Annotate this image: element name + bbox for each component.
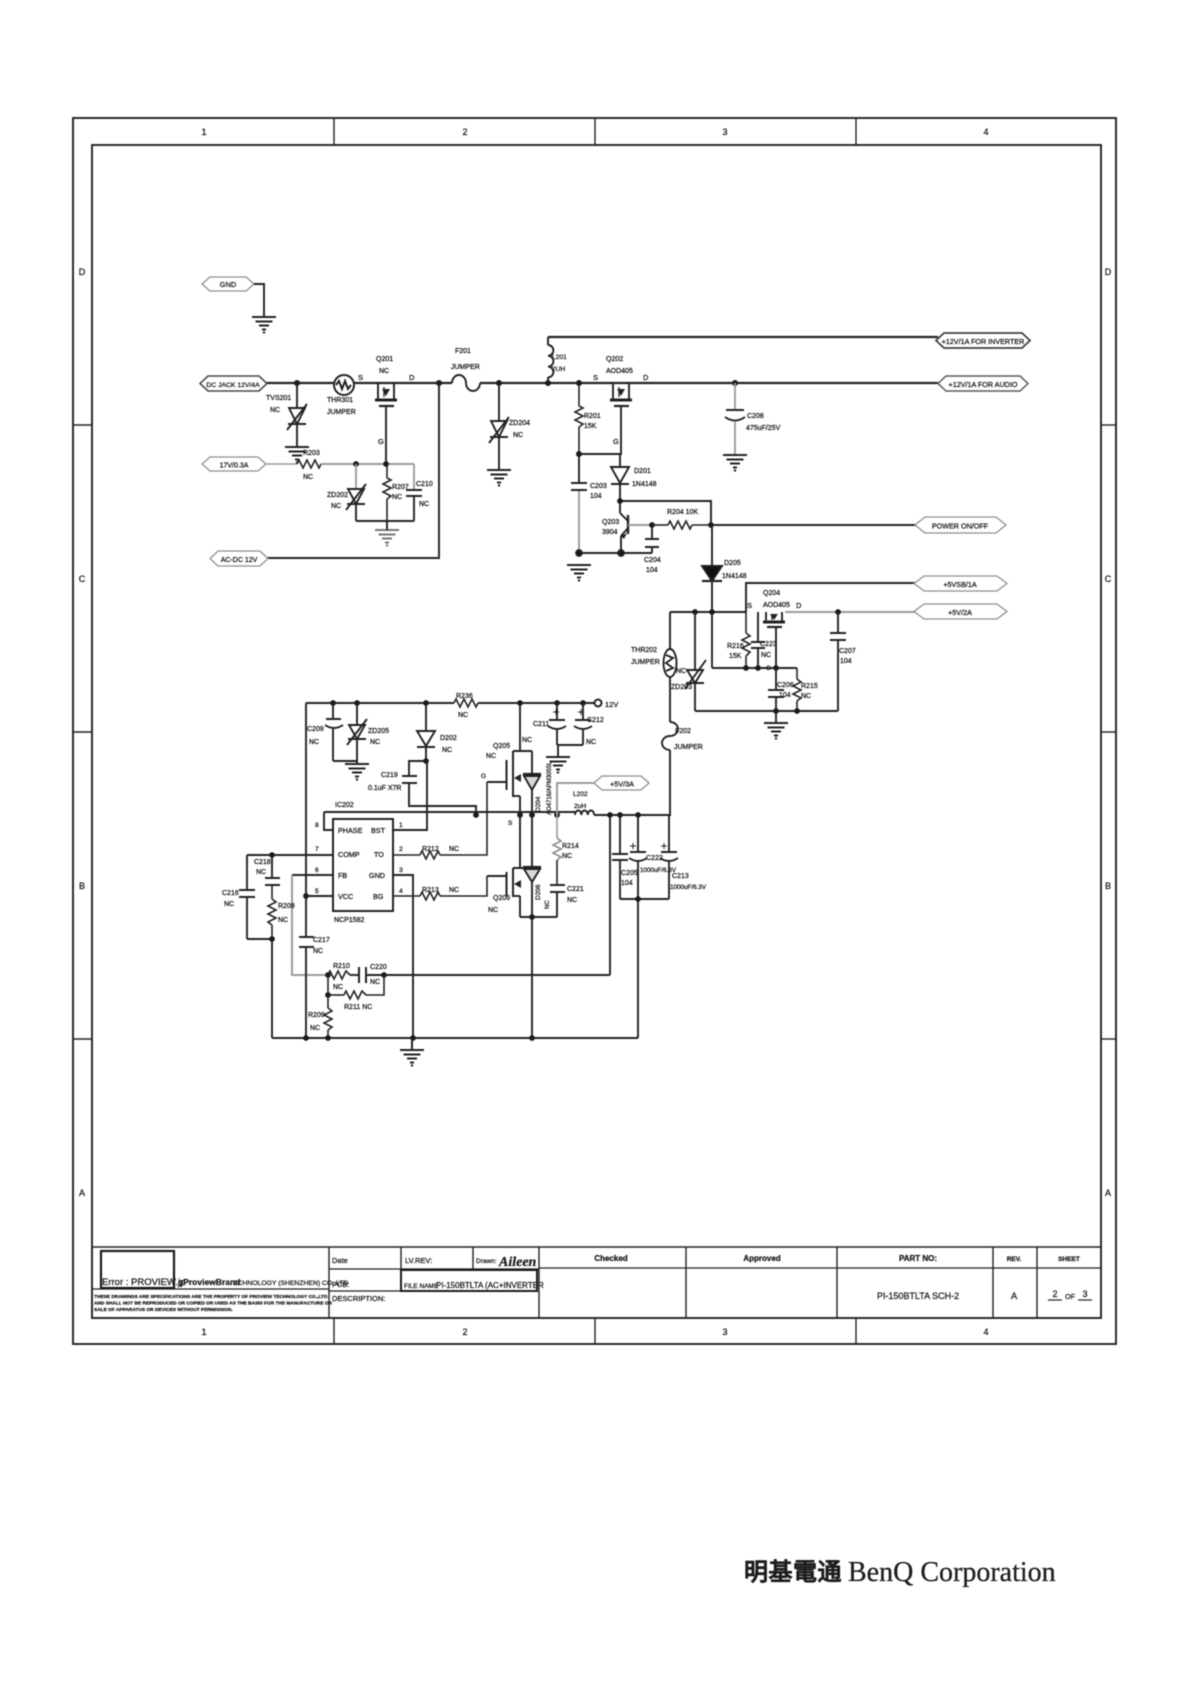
svg-text:3: 3 bbox=[1082, 1289, 1087, 1299]
svg-text:NC: NC bbox=[562, 853, 572, 860]
node GND flag bbox=[202, 277, 254, 291]
svg-text:2: 2 bbox=[1052, 1289, 1057, 1299]
svg-text:PCB:: PCB: bbox=[332, 1280, 350, 1289]
resistor R211 bbox=[325, 975, 384, 1011]
capacitor C216 bbox=[222, 855, 255, 939]
svg-text:R212: R212 bbox=[422, 846, 439, 853]
sheet numbers bbox=[1048, 1289, 1092, 1301]
wire FB pin6 bbox=[292, 874, 333, 876]
svg-text:C219: C219 bbox=[381, 772, 398, 779]
svg-text:475uF/25V: 475uF/25V bbox=[746, 425, 781, 432]
svg-text:C207: C207 bbox=[839, 648, 856, 655]
svg-text:C209: C209 bbox=[307, 726, 324, 733]
svg-text:TO: TO bbox=[374, 850, 384, 859]
ground (C208) bbox=[723, 455, 747, 472]
svg-text:C: C bbox=[1105, 574, 1112, 584]
svg-text:NC: NC bbox=[303, 474, 313, 481]
svg-text:ZD202: ZD202 bbox=[327, 492, 348, 499]
svg-text:Error : PROVIEW.jp: Error : PROVIEW.jp bbox=[102, 1277, 185, 1288]
svg-text:Drawn:: Drawn: bbox=[476, 1258, 497, 1265]
svg-text:BG: BG bbox=[373, 892, 384, 901]
svg-text:C204: C204 bbox=[644, 557, 661, 564]
thermistor THR202 JUMPER bbox=[631, 612, 677, 722]
resistor R204 10K bbox=[652, 509, 714, 529]
svg-text:+12V/1A FOR AUDIO: +12V/1A FOR AUDIO bbox=[949, 380, 1018, 389]
svg-text:Q205: Q205 bbox=[493, 743, 510, 750]
svg-text:2UH: 2UH bbox=[552, 366, 565, 373]
svg-text:2uH: 2uH bbox=[574, 803, 586, 810]
svg-text:5: 5 bbox=[315, 888, 319, 895]
svg-text:PHASE: PHASE bbox=[338, 826, 363, 835]
svg-text:NC: NC bbox=[449, 846, 459, 853]
ground (TVS201) bbox=[285, 447, 309, 464]
svg-text:3: 3 bbox=[399, 867, 403, 874]
svg-text:PI-150BTLTA SCH-2: PI-150BTLTA SCH-2 bbox=[877, 1291, 959, 1301]
rev letter bbox=[1011, 1291, 1018, 1302]
column numbers top bbox=[201, 127, 988, 137]
svg-text:+5VSB/1A: +5VSB/1A bbox=[943, 580, 977, 589]
column numbers bottom bbox=[201, 1327, 988, 1337]
svg-text:SALE OF APPARATUS OR DEVICES W: SALE OF APPARATUS OR DEVICES WITHOUT PER… bbox=[94, 1307, 233, 1313]
svg-text:C223: C223 bbox=[760, 641, 777, 648]
tvs TVS201 bbox=[266, 383, 307, 447]
svg-text:104: 104 bbox=[646, 567, 658, 574]
svg-text:Q204: Q204 bbox=[763, 590, 780, 597]
svg-text:VCC: VCC bbox=[338, 892, 353, 901]
zener ZD205 bbox=[347, 703, 389, 764]
svg-text:NC: NC bbox=[586, 739, 596, 746]
resistor R201 15K bbox=[575, 383, 601, 454]
svg-text:1: 1 bbox=[201, 127, 206, 137]
junction rail dots bbox=[294, 380, 738, 386]
svg-text:Q206: Q206 bbox=[493, 895, 510, 902]
row letters left bbox=[79, 267, 86, 1198]
svg-text:D: D bbox=[1105, 267, 1112, 277]
svg-text:NC: NC bbox=[522, 737, 532, 744]
node +12V/1A FOR AUDIO flag bbox=[938, 376, 1028, 391]
transistor Q206 bbox=[487, 815, 532, 917]
wire +5V/2A bbox=[785, 609, 915, 615]
svg-text:0.1uF X7R: 0.1uF X7R bbox=[368, 785, 401, 792]
svg-text:2: 2 bbox=[462, 1327, 467, 1337]
svg-text:NC: NC bbox=[442, 747, 452, 754]
diode D206 body bbox=[523, 815, 551, 917]
logo box bbox=[101, 1251, 174, 1288]
fuse F201 JUMPER bbox=[451, 348, 480, 391]
svg-text:Date: Date bbox=[332, 1256, 348, 1265]
svg-text:NC: NC bbox=[801, 693, 811, 700]
svg-text:17V/0.3A: 17V/0.3A bbox=[220, 463, 249, 470]
svg-text:C206: C206 bbox=[777, 682, 794, 689]
svg-text:D: D bbox=[409, 373, 415, 382]
row ticks left bbox=[73, 425, 92, 1039]
node +12V/1A FOR INVERTER flag bbox=[936, 333, 1030, 348]
svg-text:NC: NC bbox=[333, 984, 343, 991]
wire +12V inverter rail bbox=[548, 336, 938, 338]
row letters right bbox=[1105, 267, 1112, 1198]
capacitor C211 bbox=[533, 703, 566, 745]
wire output caps bottom rail bbox=[620, 896, 669, 1038]
wire GND pin3 bbox=[393, 875, 413, 1038]
svg-text:C: C bbox=[79, 574, 86, 584]
svg-text:3: 3 bbox=[722, 127, 727, 137]
wire +5V/3A tap bbox=[557, 783, 594, 815]
svg-text:NC: NC bbox=[224, 901, 234, 908]
svg-text:15K: 15K bbox=[584, 423, 597, 430]
wire 5VSB bottom rail bbox=[695, 708, 838, 723]
svg-text:8: 8 bbox=[315, 822, 319, 829]
svg-text:C217: C217 bbox=[313, 937, 330, 944]
svg-text:R209: R209 bbox=[308, 1012, 325, 1019]
svg-text:NC: NC bbox=[309, 739, 319, 746]
resistor R215 bbox=[793, 668, 818, 711]
transistor Q204 AOD405 bbox=[747, 590, 802, 627]
capacitor C218 bbox=[254, 855, 280, 885]
svg-text:S: S bbox=[747, 601, 752, 610]
svg-text:R204 10K: R204 10K bbox=[667, 509, 698, 516]
wire Q203 emitter rail bbox=[576, 550, 652, 556]
file name text bbox=[436, 1281, 544, 1290]
svg-text:DESCRIPTION:: DESCRIPTION: bbox=[332, 1294, 385, 1303]
title block horizontal dividers bbox=[92, 1268, 1101, 1291]
svg-text:4: 4 bbox=[399, 888, 403, 895]
svg-text:G: G bbox=[613, 437, 619, 446]
capacitor C207 104 bbox=[830, 612, 856, 711]
resistor R203 bbox=[266, 450, 321, 481]
ground (C211 C212) bbox=[546, 757, 570, 774]
svg-text:3: 3 bbox=[722, 1327, 727, 1337]
capacitor C221 bbox=[550, 885, 584, 917]
node 12V terminal bbox=[595, 700, 619, 710]
capacitor C222 1000uF/6.3V bbox=[629, 815, 677, 899]
svg-text:GND: GND bbox=[220, 280, 237, 289]
svg-text:NC: NC bbox=[567, 897, 577, 904]
wire AC-DC 12V riser bbox=[267, 383, 439, 558]
ic IC202 NCP1582 bbox=[333, 802, 393, 924]
svg-text:NC: NC bbox=[419, 501, 429, 508]
svg-text:104: 104 bbox=[840, 658, 852, 665]
svg-text:ZD205: ZD205 bbox=[368, 728, 389, 735]
svg-text:C208: C208 bbox=[747, 413, 764, 420]
capacitor C208 475uF/25V bbox=[725, 383, 781, 455]
node +5VSB/1A flag bbox=[914, 576, 1007, 591]
svg-text:C212: C212 bbox=[587, 717, 604, 724]
wire Q201 gate down bbox=[378, 406, 386, 464]
svg-text:AOD405: AOD405 bbox=[606, 368, 633, 375]
ground (GND flag) bbox=[252, 317, 276, 334]
svg-text:NC: NC bbox=[545, 900, 551, 909]
inductor L201 2UH bbox=[548, 337, 567, 383]
svg-text:R210: R210 bbox=[333, 963, 350, 970]
part number text bbox=[877, 1291, 959, 1301]
capacitor C212 bbox=[574, 703, 604, 746]
wire C211 C212 ground link bbox=[557, 745, 583, 757]
svg-text:15K: 15K bbox=[729, 653, 742, 660]
resistor R216 15K bbox=[727, 612, 750, 668]
svg-text:FB: FB bbox=[338, 871, 347, 880]
svg-text:REV.: REV. bbox=[1007, 1256, 1022, 1263]
svg-text:NCP1582: NCP1582 bbox=[334, 917, 364, 924]
svg-text:JUMPER: JUMPER bbox=[451, 364, 480, 371]
wire 17V bottom rail bbox=[356, 521, 414, 530]
svg-text:2: 2 bbox=[462, 127, 467, 137]
wire 12V rail bbox=[306, 700, 594, 706]
svg-text:A: A bbox=[1011, 1291, 1018, 1302]
svg-text:C205: C205 bbox=[621, 870, 638, 877]
svg-text:B: B bbox=[1105, 881, 1111, 891]
wire collector node to R204 riser bbox=[617, 498, 711, 525]
svg-text:JUMPER: JUMPER bbox=[674, 744, 703, 751]
wire BG pin4 R213 bbox=[393, 876, 487, 900]
company line text bbox=[102, 1277, 348, 1288]
svg-text:R215: R215 bbox=[801, 683, 818, 690]
node POWER ON/OFF flag bbox=[915, 517, 1006, 533]
svg-text:D204: D204 bbox=[535, 796, 542, 812]
svg-text:7: 7 bbox=[315, 846, 319, 853]
drawn by signature bbox=[498, 1255, 537, 1270]
svg-text:TVS201: TVS201 bbox=[266, 395, 291, 402]
svg-text:104: 104 bbox=[590, 493, 602, 500]
svg-text:3904: 3904 bbox=[602, 529, 618, 536]
svg-text:PI-150BTLTA (AC+INVERTER: PI-150BTLTA (AC+INVERTER bbox=[436, 1281, 544, 1290]
capacitor C209 bbox=[307, 703, 357, 761]
svg-text:4: 4 bbox=[983, 127, 988, 137]
svg-text:NC: NC bbox=[278, 917, 288, 924]
svg-text:Checked: Checked bbox=[594, 1254, 627, 1263]
zener ZD203 bbox=[671, 612, 706, 711]
row ticks right bbox=[1101, 425, 1116, 1039]
wire BST pin riser bbox=[393, 761, 427, 830]
ground (5VSB rail) bbox=[764, 723, 788, 740]
wire 17V row bbox=[321, 461, 414, 467]
svg-text:104: 104 bbox=[779, 692, 791, 699]
wire C216 R208 bottom bbox=[247, 936, 275, 1038]
legal small print bbox=[94, 1294, 333, 1313]
svg-text:S: S bbox=[593, 373, 598, 382]
wire VCC pin5 bbox=[306, 895, 333, 897]
svg-text:NC: NC bbox=[513, 432, 523, 439]
svg-text:G: G bbox=[766, 665, 771, 672]
wire GND flag to ground bbox=[254, 284, 264, 316]
wire main ground rail bbox=[272, 1035, 638, 1050]
svg-text:+5V/3A: +5V/3A bbox=[610, 780, 634, 789]
diode D204 body bbox=[523, 751, 553, 815]
svg-text:JUMPER: JUMPER bbox=[327, 409, 356, 416]
svg-text:1: 1 bbox=[399, 822, 403, 829]
svg-text:IC202: IC202 bbox=[335, 802, 354, 809]
wire 12V left riser bbox=[303, 703, 309, 936]
transistor Q203 3904 bbox=[602, 513, 652, 553]
transistor Q202 AOD405 bbox=[593, 356, 649, 406]
svg-text:D: D bbox=[796, 601, 802, 610]
wire TO pin2 R212 bbox=[393, 782, 487, 859]
svg-text:1N4148: 1N4148 bbox=[722, 573, 747, 580]
svg-text:Approved: Approved bbox=[743, 1254, 780, 1263]
svg-text:ZD203: ZD203 bbox=[671, 684, 692, 691]
capacitor C213 1000uF/6.3V bbox=[660, 815, 707, 899]
svg-text:R203: R203 bbox=[303, 450, 320, 457]
resistor R208 bbox=[268, 886, 295, 939]
svg-text:C213: C213 bbox=[672, 873, 689, 880]
svg-text:NC: NC bbox=[313, 948, 323, 955]
svg-text:F202: F202 bbox=[675, 728, 691, 735]
wire COMP pin7 bbox=[247, 852, 333, 858]
title block vertical dividers bbox=[329, 1247, 1037, 1318]
wire FB sense row bbox=[384, 974, 610, 976]
border outer frame bbox=[73, 118, 1116, 1344]
diode D202 bbox=[417, 703, 457, 761]
svg-text:NC: NC bbox=[310, 1025, 320, 1032]
svg-text:12V: 12V bbox=[605, 700, 618, 709]
svg-text:104: 104 bbox=[621, 880, 633, 887]
svg-text:SHEET: SHEET bbox=[1058, 1256, 1080, 1263]
wire +5VSB/1A bbox=[746, 583, 915, 612]
svg-text:C221: C221 bbox=[567, 886, 584, 893]
capacitor C206 104 bbox=[768, 668, 794, 711]
wire 5VSB row bbox=[670, 609, 746, 615]
svg-text:NC: NC bbox=[331, 503, 341, 510]
wire SW node line bbox=[324, 812, 669, 818]
svg-text:R201: R201 bbox=[584, 413, 601, 420]
transistor Q201 bbox=[358, 356, 415, 406]
svg-text:NC: NC bbox=[370, 979, 380, 986]
svg-text:R208: R208 bbox=[278, 903, 295, 910]
BenQ corporation logo bbox=[744, 1557, 1056, 1588]
svg-text:1N4148: 1N4148 bbox=[632, 481, 657, 488]
svg-text:明基電通: 明基電通 bbox=[744, 1559, 842, 1586]
svg-text:Q203: Q203 bbox=[602, 519, 619, 526]
wire main +12V rail bbox=[267, 382, 938, 384]
svg-text:L202: L202 bbox=[573, 791, 588, 798]
svg-text:C210: C210 bbox=[416, 481, 433, 488]
svg-text:R236: R236 bbox=[456, 693, 473, 700]
capacitor C205 104 bbox=[612, 815, 638, 899]
svg-text:R213: R213 bbox=[422, 887, 439, 894]
titleblock header texts bbox=[332, 1256, 497, 1303]
svg-text:4: 4 bbox=[983, 1327, 988, 1337]
svg-text:R211 NC: R211 NC bbox=[344, 1004, 372, 1011]
svg-text:LV.REV:: LV.REV: bbox=[405, 1256, 432, 1265]
wire POWER ON/OFF bbox=[711, 524, 916, 526]
svg-text:AC-DC 12V: AC-DC 12V bbox=[221, 557, 258, 564]
svg-text:D206: D206 bbox=[535, 884, 542, 900]
wire Q206 source rail bbox=[520, 914, 557, 1038]
svg-text:+5V/2A: +5V/2A bbox=[948, 608, 972, 617]
svg-text:FILE NAME: FILE NAME bbox=[404, 1283, 439, 1290]
svg-text:AO4716/APM3055L: AO4716/APM3055L bbox=[547, 761, 553, 815]
zener ZD202 bbox=[327, 464, 366, 521]
svg-text:PART NO:: PART NO: bbox=[899, 1254, 937, 1263]
svg-text:NC: NC bbox=[488, 907, 498, 914]
svg-text:S: S bbox=[358, 373, 363, 382]
svg-text:BenQ Corporation: BenQ Corporation bbox=[848, 1557, 1056, 1588]
svg-text:NC: NC bbox=[392, 494, 402, 501]
svg-text:D: D bbox=[79, 267, 86, 277]
svg-text:Q201: Q201 bbox=[376, 356, 393, 363]
svg-text:THR202: THR202 bbox=[631, 647, 657, 654]
svg-text:NC: NC bbox=[379, 368, 389, 375]
svg-text:C211: C211 bbox=[533, 721, 549, 728]
capacitor C220 bbox=[350, 964, 387, 986]
wire PHASE pin8 bbox=[324, 812, 333, 830]
svg-text:NC: NC bbox=[370, 739, 380, 746]
svg-text:NC: NC bbox=[256, 869, 266, 876]
transistor Q205 bbox=[481, 703, 532, 827]
resistor R210 bbox=[325, 963, 350, 991]
thermistor THR301 JUMPER bbox=[327, 375, 356, 416]
svg-text:DC JACK 12V/4A: DC JACK 12V/4A bbox=[206, 382, 260, 389]
svg-text:AOD405: AOD405 bbox=[763, 602, 790, 609]
svg-text:JUMPER: JUMPER bbox=[631, 659, 660, 666]
inductor L202 2uH bbox=[573, 791, 594, 815]
svg-text:L201: L201 bbox=[552, 354, 567, 361]
capacitor C217 bbox=[299, 937, 330, 1038]
wire Q202 gate down bbox=[576, 406, 621, 457]
svg-text:BST: BST bbox=[371, 826, 386, 835]
capacitor C223 bbox=[751, 612, 777, 668]
svg-text:D: D bbox=[643, 373, 649, 382]
svg-text:C218: C218 bbox=[254, 859, 271, 866]
svg-text:A: A bbox=[79, 1188, 85, 1198]
ic pin numbers bbox=[315, 822, 403, 895]
svg-text:C220: C220 bbox=[370, 964, 387, 971]
file name box bbox=[401, 1270, 537, 1291]
svg-text:NC: NC bbox=[270, 407, 280, 414]
svg-text:+12V/1A FOR INVERTER: +12V/1A FOR INVERTER bbox=[942, 337, 1025, 346]
svg-text:A: A bbox=[1105, 1188, 1111, 1198]
svg-text:NC: NC bbox=[676, 668, 686, 675]
node +5V/2A flag bbox=[914, 604, 1007, 619]
capacitor C210 bbox=[406, 464, 433, 521]
resistor R214 bbox=[553, 815, 579, 884]
ground (17V subcircuit) bbox=[375, 530, 399, 547]
resistor R207 bbox=[383, 464, 409, 521]
ground (ZD204) bbox=[487, 470, 511, 487]
wire FB sense riser bbox=[292, 875, 328, 975]
node +5V/3A flag bbox=[594, 776, 649, 790]
svg-text:OF: OF bbox=[1065, 1294, 1075, 1301]
svg-text:D205: D205 bbox=[724, 560, 741, 567]
svg-text:1000uF/6.3V: 1000uF/6.3V bbox=[670, 884, 707, 891]
ground (Q203 emitter) bbox=[567, 565, 591, 582]
svg-text:gProviewBrand: gProviewBrand bbox=[178, 1277, 240, 1287]
diode D205 1N4148 bbox=[702, 525, 747, 668]
svg-text:NC: NC bbox=[486, 753, 496, 760]
capacitor C219 0.1uF X7R bbox=[368, 758, 476, 815]
capacitor C203 104 bbox=[571, 454, 607, 553]
svg-text:G: G bbox=[481, 773, 486, 780]
svg-text:NC: NC bbox=[458, 712, 468, 719]
svg-text:C203: C203 bbox=[590, 483, 607, 490]
svg-text:AND SHALL NOT BE REPRODUCED OR: AND SHALL NOT BE REPRODUCED OR COPIED OR… bbox=[94, 1301, 333, 1307]
svg-text:POWER ON/OFF: POWER ON/OFF bbox=[932, 522, 989, 531]
svg-text:NC: NC bbox=[449, 887, 459, 894]
ground (ZD205) bbox=[345, 764, 369, 781]
svg-text:2: 2 bbox=[399, 846, 403, 853]
svg-text:Aileen: Aileen bbox=[498, 1255, 537, 1270]
svg-text:R214: R214 bbox=[562, 843, 579, 850]
svg-text:D202: D202 bbox=[440, 735, 457, 742]
node AC-DC 12V flag bbox=[210, 551, 268, 566]
svg-text:1: 1 bbox=[201, 1327, 206, 1337]
svg-text:Q202: Q202 bbox=[606, 356, 623, 363]
ic pin names bbox=[338, 826, 386, 901]
diode D201 1N4148 bbox=[611, 454, 657, 513]
node 17V/0.3A flag bbox=[202, 457, 266, 471]
resistor R236 bbox=[454, 693, 478, 719]
svg-text:6: 6 bbox=[315, 867, 319, 874]
capacitor C204 104 bbox=[644, 522, 661, 574]
